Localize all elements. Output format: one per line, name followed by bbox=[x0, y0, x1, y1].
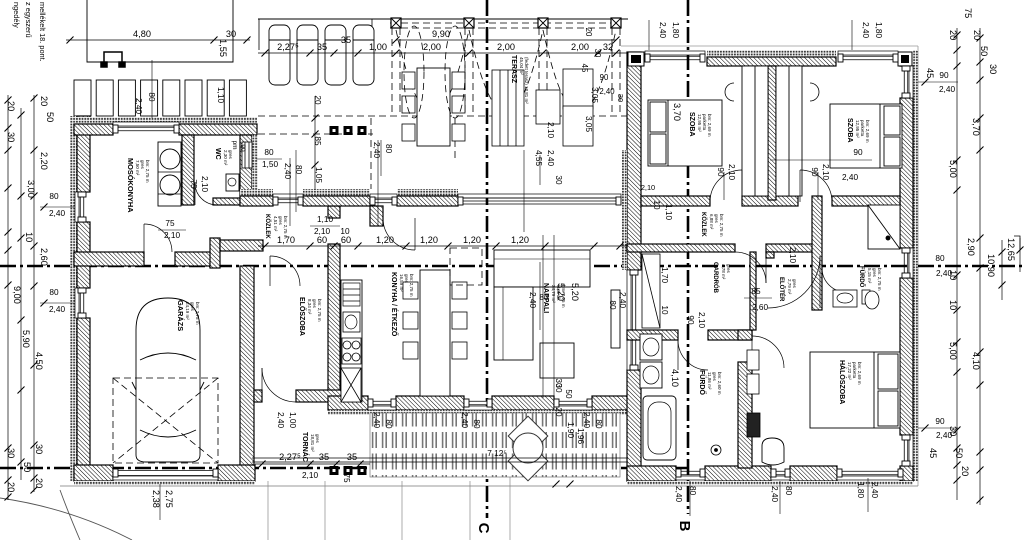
label MOSOKONYHA bbox=[126, 158, 150, 213]
svg-text:2,90: 2,90 bbox=[966, 238, 976, 256]
svg-text:9,00: 9,00 bbox=[12, 286, 22, 304]
svg-text:1,10: 1,10 bbox=[216, 87, 225, 103]
szoba1 lamp arc bbox=[725, 83, 734, 101]
wall east segment D bbox=[900, 466, 913, 481]
terrace post 4 bbox=[611, 18, 621, 28]
svg-text:5,90: 5,90 bbox=[21, 330, 31, 348]
svg-text:80: 80 bbox=[384, 419, 393, 429]
svg-text:2,40: 2,40 bbox=[842, 173, 858, 182]
garage reserve dashed box bbox=[113, 378, 218, 463]
insulation below living wall bbox=[328, 410, 628, 415]
svg-text:bm: 2,75 m: bm: 2,75 m bbox=[719, 214, 724, 237]
win2 vertical dim line bbox=[377, 140, 379, 226]
window szoba2 north bbox=[838, 51, 898, 62]
svg-text:1,20: 1,20 bbox=[376, 235, 394, 245]
svg-text:12,95 m²: 12,95 m² bbox=[855, 120, 860, 138]
wall eloszoba east lower bbox=[328, 244, 340, 402]
svg-text:gres: gres bbox=[872, 268, 877, 278]
svg-text:gres: gres bbox=[190, 302, 195, 312]
porch bottom post 2 bbox=[344, 466, 353, 475]
svg-text:20: 20 bbox=[313, 95, 322, 105]
svg-text:2,40: 2,40 bbox=[936, 269, 952, 278]
svg-text:2,40: 2,40 bbox=[49, 305, 65, 314]
svg-text:2,40: 2,40 bbox=[49, 209, 65, 218]
svg-text:2,40: 2,40 bbox=[658, 22, 667, 38]
svg-text:4,51 m²: 4,51 m² bbox=[273, 216, 278, 232]
svg-text:3,70: 3,70 bbox=[672, 103, 682, 121]
insulation terrace wall C bbox=[397, 189, 458, 196]
svg-text:TORNÁC: TORNÁC bbox=[301, 432, 310, 462]
svg-text:gres: gres bbox=[140, 160, 145, 170]
dim line win1 bbox=[256, 158, 282, 160]
svg-text:30: 30 bbox=[6, 132, 16, 142]
label NAPPALI bbox=[542, 283, 566, 313]
svg-text:50: 50 bbox=[979, 46, 989, 56]
svg-text:bm: 2,60 m: bm: 2,60 m bbox=[717, 372, 722, 395]
wall terrace south segment A bbox=[240, 196, 273, 206]
left chain 1 bbox=[5, 95, 12, 501]
svg-text:1,20: 1,20 bbox=[511, 235, 529, 245]
svg-text:12,65: 12,65 bbox=[1006, 238, 1016, 261]
label FURDO big bbox=[698, 370, 722, 395]
wardrobe szoba2 bbox=[776, 66, 802, 196]
svg-text:3,70: 3,70 bbox=[971, 118, 981, 136]
svg-text:4,50: 4,50 bbox=[34, 352, 44, 370]
svg-text:2,10: 2,10 bbox=[821, 164, 830, 180]
dim line S halo1 win bbox=[779, 481, 781, 514]
wall rightwing west upper bbox=[627, 52, 641, 270]
left chain 2 bbox=[18, 108, 25, 480]
svg-text:parketta: parketta bbox=[860, 120, 865, 137]
label KONYHA bbox=[390, 272, 414, 337]
post dashed projection 4 bbox=[612, 28, 620, 115]
wall terrace south segment C bbox=[397, 196, 458, 206]
section line A horizontal bbox=[0, 265, 1024, 268]
insulation east wall bbox=[913, 50, 918, 481]
projection line x325 bbox=[324, 481, 326, 540]
window east eloter bbox=[902, 248, 913, 278]
wall furdo-haloszoba upper bbox=[738, 330, 752, 340]
wall szoba south segment B bbox=[742, 196, 798, 206]
svg-text:32: 32 bbox=[603, 42, 613, 52]
svg-text:3,05: 3,05 bbox=[584, 116, 593, 132]
walkway dim chain bbox=[312, 96, 319, 190]
label WC bbox=[214, 148, 233, 166]
svg-text:20: 20 bbox=[39, 96, 49, 106]
svg-text:2,10: 2,10 bbox=[164, 231, 180, 240]
wall east segment C bbox=[900, 278, 913, 435]
svg-text:2,10: 2,10 bbox=[546, 122, 555, 138]
roof swag curves bbox=[396, 30, 616, 113]
wall eloszoba south segment A bbox=[254, 390, 262, 402]
svg-text:bm: 2,69 m: bm: 2,69 m bbox=[707, 114, 712, 137]
insulation north wall rightwing bbox=[707, 50, 836, 57]
dim line win2 bbox=[380, 140, 382, 176]
wall furdo-haloszoba lower bbox=[738, 362, 752, 468]
svg-text:mellékelt 18. pont.: mellékelt 18. pont. bbox=[38, 2, 47, 62]
window szoba1 north bbox=[645, 51, 705, 62]
svg-text:16,59 m²: 16,59 m² bbox=[399, 274, 404, 292]
svg-text:gres: gres bbox=[312, 299, 317, 309]
walkway dashed edge y118 bbox=[258, 115, 628, 117]
svg-text:20: 20 bbox=[6, 101, 16, 111]
window living south 1 bbox=[368, 399, 396, 410]
fence dim line bbox=[151, 60, 153, 118]
win1 vertical dim line b bbox=[295, 150, 297, 212]
wall gardrob-furdo segment A bbox=[627, 330, 678, 340]
terrace edge vertical left bbox=[258, 19, 260, 50]
svg-text:18,81 m²: 18,81 m² bbox=[310, 434, 315, 452]
coffee table bbox=[540, 343, 574, 378]
wall top-left segment A bbox=[74, 124, 113, 135]
svg-text:80: 80 bbox=[294, 165, 303, 175]
svg-text:4,10: 4,10 bbox=[971, 352, 981, 370]
road curve bottom-left 1 bbox=[0, 498, 132, 540]
svg-text:FÜRDŐ: FÜRDŐ bbox=[698, 370, 707, 395]
svg-text:20: 20 bbox=[6, 482, 16, 492]
window east haloszoba bbox=[902, 435, 913, 466]
label FURDO small bbox=[858, 266, 882, 291]
svg-text:1,20: 1,20 bbox=[463, 235, 481, 245]
svg-text:30: 30 bbox=[6, 448, 16, 458]
terrace roof dashed line y28 bbox=[390, 27, 620, 29]
svg-text:4,55: 4,55 bbox=[534, 150, 543, 166]
svg-text:7,50 m²: 7,50 m² bbox=[135, 160, 140, 176]
svg-text:2,75: 2,75 bbox=[164, 490, 174, 508]
svg-text:C: C bbox=[475, 523, 492, 534]
gardrob closet bbox=[642, 254, 660, 328]
svg-text:2,20: 2,20 bbox=[39, 152, 49, 170]
nappali dim line a bbox=[542, 235, 544, 398]
dining table bbox=[420, 270, 450, 396]
svg-text:gres: gres bbox=[228, 150, 233, 160]
svg-text:35: 35 bbox=[341, 35, 351, 45]
post dashed projection 1 bbox=[392, 28, 400, 115]
svg-text:2,40: 2,40 bbox=[372, 142, 381, 158]
svg-text:ELŐSZOBA: ELŐSZOBA bbox=[298, 297, 307, 336]
terrace roof dashed line y22 bbox=[390, 22, 620, 24]
svg-text:75: 75 bbox=[963, 8, 973, 18]
svg-text:5,00: 5,00 bbox=[948, 160, 958, 178]
svg-text:80: 80 bbox=[608, 300, 617, 310]
wardrobe szoba1 bbox=[742, 66, 768, 196]
terrace lounge sofa 1 bbox=[563, 69, 593, 109]
svg-text:30: 30 bbox=[34, 444, 44, 454]
svg-text:35: 35 bbox=[319, 452, 329, 462]
driveway outline bbox=[87, 0, 233, 62]
deck ornament diamond 2 bbox=[508, 441, 548, 481]
svg-text:bm: 2,75 m: bm: 2,75 m bbox=[409, 274, 414, 297]
wall gardrob-furdo segment B bbox=[708, 330, 752, 340]
label GARDROB bbox=[712, 262, 731, 294]
wall garage south segment A bbox=[74, 465, 113, 481]
svg-text:80: 80 bbox=[594, 419, 603, 429]
sun lounger 1 bbox=[269, 25, 290, 85]
win1 vertical dim line a bbox=[289, 158, 291, 226]
section line bottom horizontal bbox=[0, 467, 688, 470]
svg-text:(fedett terasz) 18,81 m²: (fedett terasz) 18,81 m² bbox=[524, 57, 529, 104]
wall laundry south segment B bbox=[175, 252, 211, 266]
svg-text:2,60: 2,60 bbox=[39, 248, 49, 266]
window laundry north bbox=[113, 122, 179, 133]
svg-text:2,27⁵: 2,27⁵ bbox=[279, 452, 301, 462]
kitchen counter outline bbox=[341, 280, 362, 402]
svg-text:7 12⁵: 7 12⁵ bbox=[487, 449, 507, 458]
svg-text:KONYHA / ÉTKEZŐ: KONYHA / ÉTKEZŐ bbox=[390, 272, 399, 337]
left chain 3 bbox=[31, 95, 38, 494]
window south haloszoba large bbox=[837, 469, 903, 480]
wall corridor south segment A bbox=[627, 244, 735, 252]
furdo-haloszoba door bbox=[752, 336, 784, 368]
svg-text:bm: 2,75 m: bm: 2,75 m bbox=[877, 268, 882, 291]
eloter door bbox=[768, 256, 820, 308]
window south haloszoba small bbox=[771, 469, 790, 480]
right chain 2 bbox=[977, 28, 984, 505]
dim line top 4.80 bbox=[66, 37, 251, 44]
haloszoba bed bbox=[810, 352, 900, 428]
projection line x402 bbox=[401, 481, 403, 540]
window szoba1 west bbox=[629, 62, 637, 90]
insulation rightwing west bbox=[622, 150, 627, 270]
terrace lounge sofa 2 bbox=[563, 106, 593, 146]
dim line 9,90 bbox=[393, 37, 620, 44]
svg-text:1,80: 1,80 bbox=[671, 22, 680, 38]
dim row kitchen bbox=[258, 243, 628, 250]
projection line x268 bbox=[267, 481, 269, 540]
svg-text:20: 20 bbox=[960, 466, 970, 476]
gardrob-furdo door bbox=[678, 340, 708, 370]
terrace coffee table bbox=[536, 90, 560, 124]
svg-text:2,00: 2,00 bbox=[423, 42, 441, 52]
svg-text:2,40: 2,40 bbox=[861, 22, 870, 38]
terrace post 2 bbox=[464, 18, 474, 28]
wall terrace south segment B bbox=[303, 196, 370, 206]
window wc east bbox=[242, 143, 250, 166]
svg-text:90: 90 bbox=[600, 73, 609, 82]
ground line below building bbox=[60, 485, 918, 487]
svg-text:85: 85 bbox=[313, 136, 322, 146]
svg-text:20: 20 bbox=[554, 407, 563, 417]
dim line tornac bbox=[255, 461, 370, 468]
svg-text:8,34 m²: 8,34 m² bbox=[307, 299, 312, 315]
svg-text:2,40: 2,40 bbox=[870, 482, 879, 498]
svg-text:2,60: 2,60 bbox=[752, 303, 768, 312]
svg-text:3,05: 3,05 bbox=[590, 87, 599, 103]
svg-text:2,40: 2,40 bbox=[936, 431, 952, 440]
porch bottom post 1 bbox=[330, 466, 339, 475]
terrace sideboard striped bbox=[492, 70, 524, 146]
dim sep eloter bbox=[744, 297, 772, 299]
svg-text:z egyszerű: z egyszerű bbox=[24, 2, 33, 38]
svg-text:2,40: 2,40 bbox=[939, 85, 955, 94]
window south furdo bbox=[676, 469, 705, 480]
dim line R halo win bbox=[918, 427, 958, 429]
svg-text:1,80: 1,80 bbox=[874, 22, 883, 38]
insulation below south wall bbox=[627, 481, 913, 485]
wall living south segment A bbox=[328, 396, 368, 410]
svg-text:B: B bbox=[676, 521, 693, 532]
umbrella dashed ellipse 1 bbox=[404, 26, 424, 118]
svg-text:2,79 m²: 2,79 m² bbox=[787, 279, 792, 295]
szoba2 lamp arc bbox=[810, 83, 819, 101]
svg-text:30: 30 bbox=[554, 175, 563, 185]
svg-text:MOSÓKONYHA: MOSÓKONYHA bbox=[126, 158, 135, 213]
svg-text:35: 35 bbox=[317, 42, 327, 52]
svg-text:30: 30 bbox=[988, 64, 998, 74]
svg-text:gres: gres bbox=[278, 216, 283, 226]
umbrella dashed ellipse 2 bbox=[445, 26, 465, 118]
svg-text:5,15 m²: 5,15 m² bbox=[867, 268, 872, 284]
window living east bbox=[627, 270, 638, 370]
svg-text:1,00: 1,00 bbox=[288, 412, 297, 428]
ground ticks bbox=[553, 481, 574, 488]
wc radiator bbox=[242, 142, 252, 168]
svg-text:5,20: 5,20 bbox=[556, 283, 566, 301]
svg-text:2,27⁵: 2,27⁵ bbox=[277, 42, 299, 52]
wall laundry-wc divider bbox=[182, 135, 194, 205]
vanity sink 2 bbox=[640, 362, 662, 388]
svg-text:30: 30 bbox=[226, 29, 236, 39]
svg-text:SZOBA: SZOBA bbox=[688, 112, 695, 137]
window west garage bbox=[75, 288, 86, 318]
svg-text:90: 90 bbox=[716, 167, 725, 177]
svg-text:gres: gres bbox=[404, 274, 409, 284]
fence boards row bbox=[74, 80, 246, 116]
window east szoba2 bbox=[902, 66, 913, 98]
wall living south segment B bbox=[396, 396, 464, 410]
svg-text:11,86 m²: 11,86 m² bbox=[707, 372, 712, 390]
wall kozlek-gardrob segment B bbox=[766, 244, 816, 252]
svg-text:2,40: 2,40 bbox=[283, 163, 292, 179]
svg-text:90: 90 bbox=[939, 71, 949, 80]
dim line R szoba2 win bbox=[918, 81, 958, 83]
svg-text:1,96: 1,96 bbox=[576, 428, 585, 444]
svg-text:20: 20 bbox=[948, 30, 958, 40]
sun lounger 4 bbox=[353, 25, 374, 85]
svg-text:HÁLÓSZOBA: HÁLÓSZOBA bbox=[838, 360, 847, 404]
glassdoor vertical dim line bbox=[523, 150, 525, 232]
dim sep kozlek bbox=[310, 225, 340, 227]
gardrob door bbox=[735, 252, 766, 283]
wall gardrob-eloter bbox=[750, 252, 756, 330]
car body bbox=[132, 298, 204, 462]
svg-text:75: 75 bbox=[189, 179, 198, 189]
svg-text:bm: 2,75 m: bm: 2,75 m bbox=[283, 216, 288, 239]
svg-text:50: 50 bbox=[954, 448, 964, 458]
svg-text:2,40: 2,40 bbox=[599, 87, 615, 96]
label SZOBA2 bbox=[846, 118, 870, 143]
dim line szoba1 win inner bbox=[770, 159, 872, 161]
wall kozlek-konyha stub bbox=[370, 206, 383, 226]
kitchenwin vertical dim line bbox=[539, 262, 541, 330]
svg-text:5,00: 5,00 bbox=[948, 342, 958, 360]
svg-text:2,10: 2,10 bbox=[727, 164, 736, 180]
post dashed projection 2 bbox=[465, 28, 473, 115]
svg-text:17,22 m²: 17,22 m² bbox=[847, 362, 852, 380]
svg-text:5,20: 5,20 bbox=[570, 283, 580, 301]
svg-text:2,10: 2,10 bbox=[641, 183, 655, 192]
gate posts U-shape bbox=[101, 52, 125, 67]
svg-text:10: 10 bbox=[340, 227, 350, 236]
dim line L win1 bbox=[40, 206, 74, 208]
terrace chairs bbox=[402, 72, 465, 141]
svg-text:parketta: parketta bbox=[852, 362, 857, 379]
svg-text:30: 30 bbox=[554, 378, 563, 388]
svg-text:2,10: 2,10 bbox=[200, 176, 209, 192]
svg-text:2,40: 2,40 bbox=[134, 98, 143, 114]
deck ornament circle bbox=[513, 433, 543, 463]
terrace dining table bbox=[417, 68, 450, 146]
roof eave outline top-right bbox=[621, 45, 918, 47]
svg-text:80: 80 bbox=[784, 486, 793, 496]
insulation corner strip bbox=[252, 135, 258, 196]
wall eloszoba east upper bbox=[328, 206, 340, 218]
svg-text:80: 80 bbox=[472, 419, 481, 429]
svg-text:80: 80 bbox=[49, 192, 59, 201]
bedroom dresser shelf 2 bbox=[747, 374, 759, 394]
svg-text:gres: gres bbox=[792, 279, 797, 289]
label SZOBA1 bbox=[688, 112, 712, 137]
svg-text:1,10: 1,10 bbox=[317, 215, 333, 224]
svg-text:85: 85 bbox=[751, 287, 761, 296]
svg-text:2,40: 2,40 bbox=[582, 412, 591, 428]
svg-text:gres: gres bbox=[726, 264, 731, 274]
eloter-furdo2 door bbox=[822, 268, 846, 292]
svg-text:2,40: 2,40 bbox=[276, 412, 285, 428]
svg-text:KÖZLEK: KÖZLEK bbox=[700, 212, 707, 237]
svg-text:ngedély: ngedély bbox=[12, 2, 21, 28]
walkway dashed edge y134 bbox=[258, 133, 373, 135]
dim sep wcdoor bbox=[158, 229, 186, 231]
svg-text:10: 10 bbox=[652, 200, 661, 210]
wall south rightwing segment A bbox=[627, 466, 676, 481]
svg-text:50: 50 bbox=[45, 112, 55, 122]
insulation top wall bbox=[74, 117, 257, 124]
svg-text:90: 90 bbox=[935, 417, 945, 426]
szoba1 bed bbox=[648, 100, 722, 166]
svg-text:pm: pm bbox=[231, 141, 238, 150]
walkway post 1 bbox=[330, 126, 339, 135]
svg-text:20: 20 bbox=[972, 30, 982, 40]
vanity sink 1 bbox=[640, 334, 662, 360]
insulation terrace wall A bbox=[240, 189, 273, 196]
svg-text:2,40: 2,40 bbox=[770, 486, 779, 502]
svg-text:10: 10 bbox=[948, 300, 958, 310]
dim line S halo2 win bbox=[867, 478, 869, 512]
svg-text:90: 90 bbox=[686, 315, 695, 325]
wall eloszoba south segment B bbox=[296, 390, 344, 402]
bedroom dresser shelf 1 bbox=[747, 350, 759, 370]
window west laundry bbox=[75, 192, 86, 222]
svg-text:FÜRDŐ: FÜRDŐ bbox=[858, 266, 865, 288]
wall eloter north stub bbox=[766, 252, 774, 258]
svg-text:2,00: 2,00 bbox=[497, 42, 515, 52]
insulation west wall bbox=[70, 116, 77, 481]
laundry door bbox=[144, 224, 172, 252]
small bath sink bbox=[833, 290, 857, 307]
svg-text:80: 80 bbox=[147, 92, 156, 102]
dim line glassdoor bbox=[539, 155, 541, 185]
partition stem wall between szoba rooms bbox=[768, 66, 776, 200]
right chain 1 bbox=[954, 28, 961, 500]
svg-text:90: 90 bbox=[853, 148, 863, 157]
right bracket 12,65 bbox=[1014, 236, 1020, 250]
walkway post 3 bbox=[358, 126, 367, 135]
furdo wc bbox=[711, 445, 721, 455]
svg-text:2,30 m²: 2,30 m² bbox=[223, 150, 228, 166]
svg-text:ELŐTÉR: ELŐTÉR bbox=[778, 277, 786, 302]
dryer circle bbox=[160, 175, 180, 195]
